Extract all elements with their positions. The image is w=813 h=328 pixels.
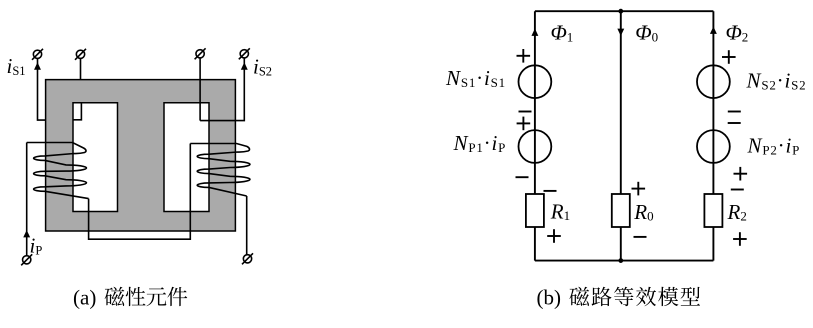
polarity + above source N_S1 bbox=[517, 49, 531, 63]
mmf source N_P2·i_P bbox=[697, 130, 730, 163]
terminal S2 left end bbox=[195, 48, 206, 59]
node: top junction dot bbox=[618, 9, 623, 14]
mmf source N_S2·i_S2 bbox=[697, 65, 730, 98]
wire: right branch bbox=[712, 11, 714, 260]
polarity - above source N_P2 bbox=[728, 122, 741, 124]
svg-text:(b): (b) bbox=[537, 286, 562, 310]
terminal S1 dot-end (top-left) bbox=[32, 49, 43, 60]
svg-text:Φ: Φ bbox=[551, 21, 567, 45]
svg-text:1: 1 bbox=[567, 29, 574, 44]
wire: middle branch bbox=[620, 11, 622, 260]
primary winding right coil (4 turns) bbox=[190, 144, 250, 197]
wire: top rail bbox=[535, 10, 714, 12]
wire: terminal S2-left lead down through core bbox=[199, 58, 201, 121]
primary winding left coil (4 turns) bbox=[27, 143, 89, 199]
svg-text:2: 2 bbox=[742, 29, 749, 44]
terminal S1 other end bbox=[75, 49, 86, 60]
polarity + above source N_S2 bbox=[722, 50, 736, 64]
polarity + bottom of R1 bbox=[547, 229, 561, 243]
reluctance R2 bbox=[704, 194, 722, 227]
terminal P right bbox=[242, 253, 253, 264]
svg-text:Φ: Φ bbox=[635, 21, 651, 45]
terminal S2 dot-end (top-right) bbox=[239, 48, 250, 59]
polarity - top of R2 bbox=[731, 189, 744, 191]
node: bottom junction dot bbox=[618, 258, 623, 263]
wire: terminal S1b stub into core top bbox=[80, 59, 82, 80]
terminal P left (i_P) bbox=[21, 254, 32, 265]
polarity - below source N_S2 bbox=[728, 111, 741, 113]
caption (a) CJK 磁性元件 bbox=[105, 287, 188, 306]
polarity - top of R1 bbox=[544, 190, 557, 192]
wire: S2 turn across right leg and up to terminal bbox=[200, 58, 244, 121]
polarity + top of R0 bbox=[632, 182, 646, 196]
arrow i_S1 (up) bbox=[34, 62, 41, 69]
arrow flux Phi0 (down) bbox=[617, 29, 624, 36]
mmf source N_S1·i_S1 bbox=[519, 65, 552, 98]
wire: right coil exit down to terminal bbox=[246, 196, 248, 255]
wire: bottom rail bbox=[535, 260, 714, 262]
wire: S1 turn visible in left window (notch) bbox=[73, 103, 81, 120]
polarity + below source N_P2 bbox=[734, 167, 748, 181]
wire: left branch bbox=[534, 11, 536, 260]
reluctance R1 bbox=[526, 194, 544, 227]
wire: terminal S1 down lead bbox=[38, 59, 46, 120]
arrow i_P (up) bbox=[23, 230, 30, 237]
svg-text:(a): (a) bbox=[73, 286, 96, 310]
svg-text:0: 0 bbox=[652, 29, 659, 44]
arrow i_S2 (up) bbox=[241, 62, 248, 69]
arrow flux Phi2 (up) bbox=[710, 27, 717, 34]
reluctance R0 bbox=[612, 194, 630, 227]
polarity - below source N_S1 bbox=[519, 111, 532, 113]
wire: primary lead from i_P terminal up to left coil bbox=[26, 143, 28, 256]
magnetic core (a): EE core with two windows bbox=[46, 80, 236, 231]
arrow flux Phi1 (up) bbox=[531, 29, 538, 36]
caption (b) CJK 磁路等效模型 bbox=[569, 287, 700, 307]
polarity + bottom of R2 bbox=[733, 232, 747, 246]
mmf source N_P1·i_P bbox=[519, 130, 552, 163]
wire: primary interconnect under core bbox=[89, 144, 191, 240]
svg-text:Φ: Φ bbox=[726, 21, 742, 45]
polarity + above source N_P1 bbox=[517, 117, 531, 131]
polarity - below source N_P1 bbox=[516, 176, 529, 178]
polarity - bottom of R0 bbox=[634, 236, 647, 238]
